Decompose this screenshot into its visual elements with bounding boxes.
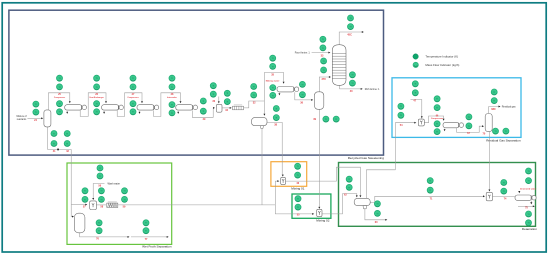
wire 39 long down to Mixing 02 bbox=[318, 109, 320, 208]
indicator 86 bbox=[501, 188, 507, 194]
arrow into final cooler bbox=[518, 191, 520, 193]
wire Y-D to final cooler bbox=[493, 196, 517, 198]
indicator 57 bbox=[96, 220, 102, 226]
wash water wire bbox=[93, 184, 104, 199]
wire V-101 to E-25 bbox=[48, 93, 69, 110]
indicator 35 bbox=[320, 36, 326, 42]
indicator 59 bbox=[143, 220, 149, 226]
wire RGS vessel top residual gas bbox=[489, 107, 500, 114]
arrow stream 76 bbox=[128, 236, 130, 238]
indicator 50 bbox=[97, 173, 103, 179]
wire V-102 top to column bbox=[319, 77, 330, 92]
indicator 42 bbox=[349, 80, 355, 86]
indicator 46 bbox=[64, 130, 70, 136]
indicator 87 bbox=[525, 168, 531, 174]
indicator 19 bbox=[200, 98, 206, 104]
indicator 34 bbox=[273, 115, 279, 121]
svg-text:Compressor: Compressor bbox=[431, 117, 443, 120]
indicator 72 bbox=[434, 129, 440, 135]
air cooler AC-01 bbox=[233, 105, 244, 110]
indicator 33 bbox=[273, 105, 279, 111]
intercooler E-27 bbox=[137, 105, 159, 110]
indicator 13 bbox=[130, 101, 136, 107]
utility arrow bbox=[177, 112, 179, 114]
indicator 41 bbox=[349, 72, 355, 78]
compression section box bbox=[9, 10, 384, 155]
arrow rich amine bbox=[361, 88, 363, 90]
arrow into Y-D bbox=[483, 195, 485, 197]
svg-text:Compressor: Compressor bbox=[54, 97, 65, 99]
wire RGS mixer to compressor/cooler bbox=[424, 116, 443, 123]
indicator 14 bbox=[130, 109, 136, 115]
arrow into E-25 bbox=[69, 101, 71, 103]
arrow stream 60 bbox=[385, 219, 387, 221]
svg-text:Heat Exchanger: Heat Exchanger bbox=[89, 96, 104, 99]
indicator 55 bbox=[121, 188, 127, 194]
deaerator drum bbox=[354, 198, 370, 208]
wire branch to separator vessel bbox=[71, 205, 73, 217]
arrow stream 77 bbox=[167, 236, 169, 238]
arrow into makeup exchanger bbox=[283, 82, 285, 84]
wire loop 35 to makeup exchanger bbox=[264, 73, 283, 102]
indicator 80 bbox=[346, 184, 352, 190]
arrow into S-01 bbox=[213, 107, 215, 109]
indicator 21 bbox=[210, 83, 216, 89]
arrow into M-01 left bbox=[277, 180, 279, 182]
wire E-28 to separator S-01 bbox=[192, 108, 214, 117]
intercooler E-26 bbox=[102, 105, 124, 110]
wire E-27 to E-28 bbox=[154, 93, 181, 117]
indicator 49 bbox=[97, 165, 103, 171]
indicator 25 bbox=[251, 83, 257, 89]
indicator 30 bbox=[270, 92, 276, 98]
indicator 89 bbox=[525, 211, 531, 217]
indicator 73 bbox=[466, 114, 472, 120]
wire E-25 to E-26 bbox=[80, 93, 106, 117]
indicator 62 bbox=[295, 172, 301, 178]
wire poor amine feed bbox=[312, 52, 330, 54]
indicator 84 bbox=[427, 187, 433, 193]
svg-text:Makeup water: Makeup water bbox=[266, 80, 280, 83]
mixer M-01 bbox=[281, 177, 286, 184]
indicator 63 bbox=[295, 196, 301, 202]
indicator 65 bbox=[412, 81, 418, 87]
indicator 27 bbox=[270, 55, 276, 61]
Deaeration box bbox=[339, 163, 536, 227]
wire wet vessel bottoms bbox=[80, 233, 129, 237]
Mixing 02 box bbox=[292, 194, 331, 218]
svg-text:Mixing 02: Mixing 02 bbox=[316, 219, 330, 223]
indicator 1 bbox=[33, 101, 39, 107]
indicator 8 bbox=[94, 84, 100, 90]
svg-text:Intercooler: Intercooler bbox=[167, 96, 177, 99]
legend mass flow indicator symbol bbox=[413, 62, 418, 67]
indicator 9 bbox=[94, 101, 100, 107]
arrow into E-28 bbox=[180, 101, 182, 103]
indicator 83 bbox=[427, 178, 433, 184]
wire V-101 bottom down to wet froth bbox=[48, 127, 71, 205]
legend temperature indicator symbol bbox=[413, 54, 418, 59]
junction dot bbox=[57, 149, 59, 151]
svg-text:Temperature Indicator (K): Temperature Indicator (K) bbox=[425, 55, 458, 59]
svg-text:Mass Flow Indicator (kg/h): Mass Flow Indicator (kg/h) bbox=[425, 63, 459, 67]
svg-text:Compressor: Compressor bbox=[127, 97, 138, 99]
arrow into mixer M-01 top bbox=[282, 175, 284, 177]
indicator 82 bbox=[374, 210, 380, 216]
Wet Froth Separation box bbox=[67, 163, 172, 244]
svg-text:Poor Amine: 1: Poor Amine: 1 bbox=[295, 52, 311, 55]
long wash line to mixing boxes bbox=[118, 204, 275, 206]
indicator 64 bbox=[295, 204, 301, 210]
svg-text:Rich Amine: 1: Rich Amine: 1 bbox=[365, 88, 380, 91]
utility arrow bbox=[139, 112, 141, 114]
indicator 78 bbox=[503, 128, 509, 134]
indicator 2 bbox=[33, 109, 39, 115]
indicator 10 bbox=[94, 109, 100, 115]
indicator 37 bbox=[321, 58, 327, 64]
arrow into V-102 bbox=[311, 99, 313, 101]
indicator 48 bbox=[64, 140, 70, 146]
arrow poor amine bbox=[328, 52, 330, 54]
wire column top product bbox=[339, 32, 362, 45]
wire drum to Mixing 01 bbox=[267, 122, 282, 175]
arrow into Y-D top bbox=[488, 190, 490, 192]
arrow into column bbox=[329, 76, 331, 78]
wire 47 stub bbox=[411, 100, 422, 119]
arrow into wet vessel bbox=[72, 216, 74, 218]
branch up to Mixing 01 bbox=[275, 181, 278, 205]
absorber column C-01 bbox=[332, 45, 346, 86]
wet froth mixer Y-W bbox=[90, 201, 97, 210]
indicator 75 bbox=[491, 89, 497, 95]
wire cooler to junction bbox=[244, 101, 265, 108]
utility stub makeup bbox=[278, 93, 280, 95]
indicator 32 bbox=[299, 92, 305, 98]
indicator 3 bbox=[56, 75, 62, 81]
wire continue to 77 bbox=[131, 236, 168, 238]
svg-text:37C: 37C bbox=[322, 78, 327, 81]
indicator 77 bbox=[492, 128, 498, 134]
utility stub bbox=[177, 111, 179, 113]
wire M-01 out to deaerator drum inlet A bbox=[285, 167, 360, 196]
riser to RGS mixer bbox=[395, 123, 415, 170]
indicator 60 bbox=[143, 228, 149, 234]
deaerated water product wire bbox=[518, 205, 534, 207]
indicator 56 bbox=[121, 196, 127, 202]
svg-text:Mixing 01: Mixing 01 bbox=[291, 187, 305, 191]
indicator 88 bbox=[525, 178, 531, 184]
wire deaerator drum bottom out bbox=[365, 209, 386, 220]
wire cyan riser to deaerator drum inlet C bbox=[366, 170, 395, 198]
indicator 7 bbox=[94, 75, 100, 81]
wire RGS cooler to vessel bbox=[457, 126, 483, 132]
final cooler utility out bbox=[530, 201, 532, 204]
arrow into E-27 bbox=[141, 101, 143, 103]
indicator 66 bbox=[412, 90, 418, 96]
utility arrow bbox=[66, 112, 68, 114]
froth filter/exchanger bbox=[107, 202, 118, 208]
arrow utility down bbox=[530, 202, 532, 204]
flash drum F-01 bbox=[252, 118, 268, 129]
indicator 29 bbox=[270, 85, 276, 91]
wire rich amine outlet bbox=[340, 85, 362, 89]
indicator 6 bbox=[56, 109, 62, 115]
indicator 28 bbox=[270, 63, 276, 69]
arrow into RGS mixer top bbox=[421, 116, 423, 118]
RGS separator vessel bbox=[485, 114, 492, 132]
indicator 36 bbox=[320, 45, 326, 51]
svg-text:Residual gas: Residual gas bbox=[502, 105, 517, 108]
indicator 90 bbox=[525, 220, 531, 226]
wire M-02 out to deaerator drum inlet B bbox=[322, 194, 357, 214]
indicator 40 bbox=[347, 24, 353, 30]
indicator 74 bbox=[466, 123, 472, 129]
wire makeup exchanger to V-102 bbox=[295, 92, 312, 100]
intercooler E-25 bbox=[65, 105, 87, 110]
arrow into M-02 left bbox=[312, 213, 314, 215]
svg-text:Residual Gas Separation: Residual Gas Separation bbox=[486, 138, 521, 142]
utility stub bbox=[139, 111, 141, 113]
RGS cooler utility stub bbox=[444, 129, 446, 131]
indicator 52 bbox=[82, 196, 88, 202]
arrow residual gas bbox=[499, 106, 501, 108]
Mixing 01 box bbox=[271, 162, 307, 187]
indicator 69 bbox=[434, 96, 440, 102]
svg-text:Mixture of: Mixture of bbox=[16, 115, 26, 118]
wire deaerator drum to mixer Y-D bbox=[370, 196, 484, 202]
arrow into RGS mixer bbox=[414, 122, 416, 124]
arrow into deaerator drum A bbox=[359, 195, 361, 197]
indicator 4 bbox=[56, 84, 62, 90]
indicator 61 bbox=[295, 163, 301, 169]
RGS cooler bbox=[443, 122, 464, 127]
indicator 71 bbox=[434, 121, 440, 127]
intercooler E-28 bbox=[176, 105, 198, 110]
makeup water exchanger bbox=[277, 87, 299, 92]
indicator 5 bbox=[56, 101, 62, 107]
wire S-01 to cooler bbox=[222, 107, 231, 109]
svg-text:45C: 45C bbox=[347, 33, 352, 36]
wire RGS vessel bottom to Y-D top bbox=[488, 132, 490, 191]
branch down to Mixing 02 bbox=[275, 205, 313, 214]
svg-text:Deaerated water: Deaerated water bbox=[520, 187, 536, 190]
arrow into deaerator drum B bbox=[356, 195, 358, 197]
RGS mixer Y-R bbox=[418, 119, 424, 126]
suction drum V-101 bbox=[44, 110, 51, 127]
froth separator vessel bbox=[74, 213, 85, 233]
indicator 68 bbox=[398, 112, 404, 118]
indicator 85 bbox=[501, 179, 507, 185]
stub into S-01 top bbox=[218, 97, 220, 103]
arrow sweet gas bbox=[362, 31, 364, 33]
indicator 20 bbox=[200, 108, 206, 114]
svg-text:Recycled Gas Sweetening: Recycled Gas Sweetening bbox=[348, 156, 385, 160]
utility arrow makeup bbox=[278, 93, 280, 95]
arrow into drum F-01 bbox=[263, 114, 265, 116]
wire E-26 to E-27 bbox=[117, 93, 142, 117]
svg-text:reactants: reactants bbox=[17, 118, 27, 121]
indicator 45 bbox=[51, 130, 57, 136]
indicator 70 bbox=[434, 105, 440, 111]
utility arrow bbox=[103, 112, 105, 114]
arrow RGS utility bbox=[444, 129, 446, 131]
arrow into E-26 bbox=[105, 101, 107, 103]
arrow wash water into mixer bbox=[92, 198, 94, 200]
indicator 31 bbox=[299, 81, 305, 87]
indicator 44 bbox=[333, 116, 339, 122]
indicator 76 bbox=[491, 98, 497, 104]
wire drum bottom down bbox=[261, 129, 263, 205]
knockout vessel V-102 bbox=[314, 92, 323, 110]
indicator 79 bbox=[346, 176, 352, 182]
indicator 67 bbox=[398, 103, 404, 109]
wire wet mixer to filter bbox=[97, 204, 106, 206]
indicator 54 bbox=[98, 196, 104, 202]
wire into wet froth mixer bbox=[71, 204, 86, 206]
arrow into RGS vessel bbox=[482, 125, 484, 127]
indicator 58 bbox=[96, 228, 102, 234]
indicator 11 bbox=[130, 75, 136, 81]
arrow deaerated water bbox=[533, 205, 535, 207]
arrow into cooler bbox=[230, 107, 232, 109]
indicator 39 bbox=[347, 15, 353, 21]
feed wire to V-101 bbox=[27, 117, 42, 119]
arrow into mixer M-02 top bbox=[318, 207, 320, 209]
Residual Gas Separation box bbox=[392, 78, 521, 138]
indicator 53 bbox=[98, 188, 104, 194]
indicator 51 bbox=[82, 188, 88, 194]
mixer M-02 bbox=[317, 209, 322, 216]
arrow into wet mixer bbox=[85, 204, 87, 206]
wire junction down to drum bbox=[263, 101, 265, 115]
indicator 17 bbox=[169, 102, 175, 108]
arrow into S-01 top bbox=[218, 101, 220, 103]
feed arrow bbox=[41, 117, 43, 119]
indicator 47 bbox=[51, 140, 57, 146]
svg-text:68C: 68C bbox=[491, 108, 496, 111]
indicator 15 bbox=[169, 75, 175, 81]
indicator 26 bbox=[251, 92, 257, 98]
indicator 18 bbox=[169, 110, 175, 116]
separator S-01 bbox=[216, 104, 222, 112]
indicator 16 bbox=[169, 84, 175, 90]
utility stub bbox=[66, 111, 68, 113]
svg-text:Deaeration: Deaeration bbox=[522, 227, 537, 231]
indicator 43 bbox=[323, 116, 329, 122]
indicator 38 bbox=[321, 67, 327, 73]
arrow into RGS cooler bbox=[443, 119, 445, 121]
indicator 24 bbox=[224, 99, 230, 105]
indicator 12 bbox=[130, 84, 136, 90]
deaeration mixer Y-D bbox=[486, 192, 492, 200]
utility stub bbox=[103, 111, 105, 113]
svg-text:Wash water: Wash water bbox=[108, 182, 121, 185]
svg-text:Wet Froth Separation: Wet Froth Separation bbox=[142, 245, 172, 249]
indicator 81 bbox=[374, 201, 380, 207]
indicator 23 bbox=[224, 90, 230, 96]
deaerated water cooler bbox=[515, 195, 536, 200]
indicator 22 bbox=[210, 91, 216, 97]
